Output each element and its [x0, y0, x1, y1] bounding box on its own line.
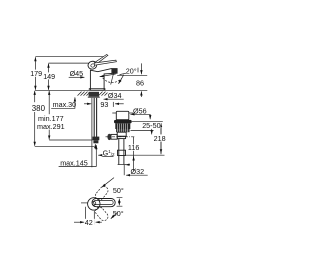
label 50 top with leader: [102, 178, 124, 196]
countertop hatch right: [99, 92, 108, 96]
reference line G1/2 connection: [49, 139, 92, 141]
svg-text:max.145: max.145: [60, 159, 88, 168]
top view lever rotated up 50: [94, 185, 110, 202]
dimension 218: [153, 125, 166, 153]
faucet lever: [94, 55, 116, 66]
dimension 380: [31, 91, 47, 146]
dimension 42: [74, 207, 102, 227]
svg-text:50°: 50°: [113, 209, 124, 218]
mounting nut under counter: [88, 92, 100, 98]
dimension max.30: [51, 97, 76, 109]
svg-text:116: 116: [128, 143, 139, 152]
extension line handle top (179): [35, 56, 103, 58]
countertop line: [35, 89, 147, 91]
drain side outlet: [107, 134, 117, 140]
locknut bottom extension line: [131, 130, 154, 132]
drain collar: [117, 136, 125, 138]
side outlet centerline: [106, 136, 136, 138]
dimension 116: [127, 137, 142, 171]
union bottom extension line: [126, 154, 165, 156]
label Ø34 with leader: [104, 91, 124, 100]
drain pipe: [118, 139, 126, 165]
hose end fitting: [93, 137, 100, 144]
dimension 93: [84, 100, 124, 109]
faucet body and spout: [90, 69, 117, 91]
drain plug cap: [112, 111, 133, 119]
svg-text:218: 218: [154, 134, 166, 143]
dimension 179: [30, 57, 42, 90]
spout level reference line: [117, 74, 147, 76]
top view handle stub: [81, 202, 88, 204]
countertop hatch left: [78, 92, 90, 96]
top view lever solid: [92, 199, 115, 207]
supply hoses: [94, 98, 96, 138]
svg-text:max.30: max.30: [53, 100, 77, 109]
dimension min.177 max.291: [37, 91, 66, 140]
svg-text:max.291: max.291: [37, 122, 65, 131]
svg-text:380: 380: [32, 104, 46, 113]
label 50 bottom with leader: [111, 209, 124, 219]
dimension 25-50: [142, 121, 161, 154]
faucet base plate: [89, 89, 105, 91]
dimension 86: [135, 63, 145, 97]
dimension max.145: [59, 145, 97, 168]
top view lever rotated down 50: [94, 206, 110, 223]
small arrow at locknut line: [151, 129, 153, 135]
extension line handle pivot (149): [49, 62, 89, 64]
label G 1/2 with leader: [98, 148, 115, 157]
swing marker arrows: [117, 198, 123, 207]
drain tee body: [117, 132, 126, 136]
svg-text:179: 179: [30, 69, 42, 78]
drain flange: [114, 120, 132, 124]
label Ø32 with leader: [124, 165, 148, 177]
top view cartridge dot: [92, 202, 96, 206]
svg-text:86: 86: [136, 79, 144, 88]
flange top extension line: [132, 120, 163, 122]
svg-text:20°: 20°: [126, 67, 137, 76]
faucet handle loop knob: [87, 60, 98, 70]
reference line hose end level: [35, 144, 96, 146]
pop-up rod: [91, 98, 93, 168]
drain locknut knurled: [115, 123, 130, 132]
top view body circle: [88, 198, 100, 210]
svg-text:149: 149: [43, 72, 55, 81]
drain union square: [118, 150, 126, 155]
svg-text:25-50: 25-50: [142, 121, 160, 130]
svg-text:50°: 50°: [113, 186, 124, 195]
label Ø45 with leader: [69, 69, 85, 78]
svg-text:Ø45: Ø45: [70, 69, 84, 78]
svg-text:42: 42: [85, 218, 93, 227]
dimension 149: [43, 64, 56, 90]
svg-text:93: 93: [100, 100, 108, 109]
label Ø56 with leader: [130, 106, 150, 119]
20 degree spout annotation: [100, 67, 138, 85]
